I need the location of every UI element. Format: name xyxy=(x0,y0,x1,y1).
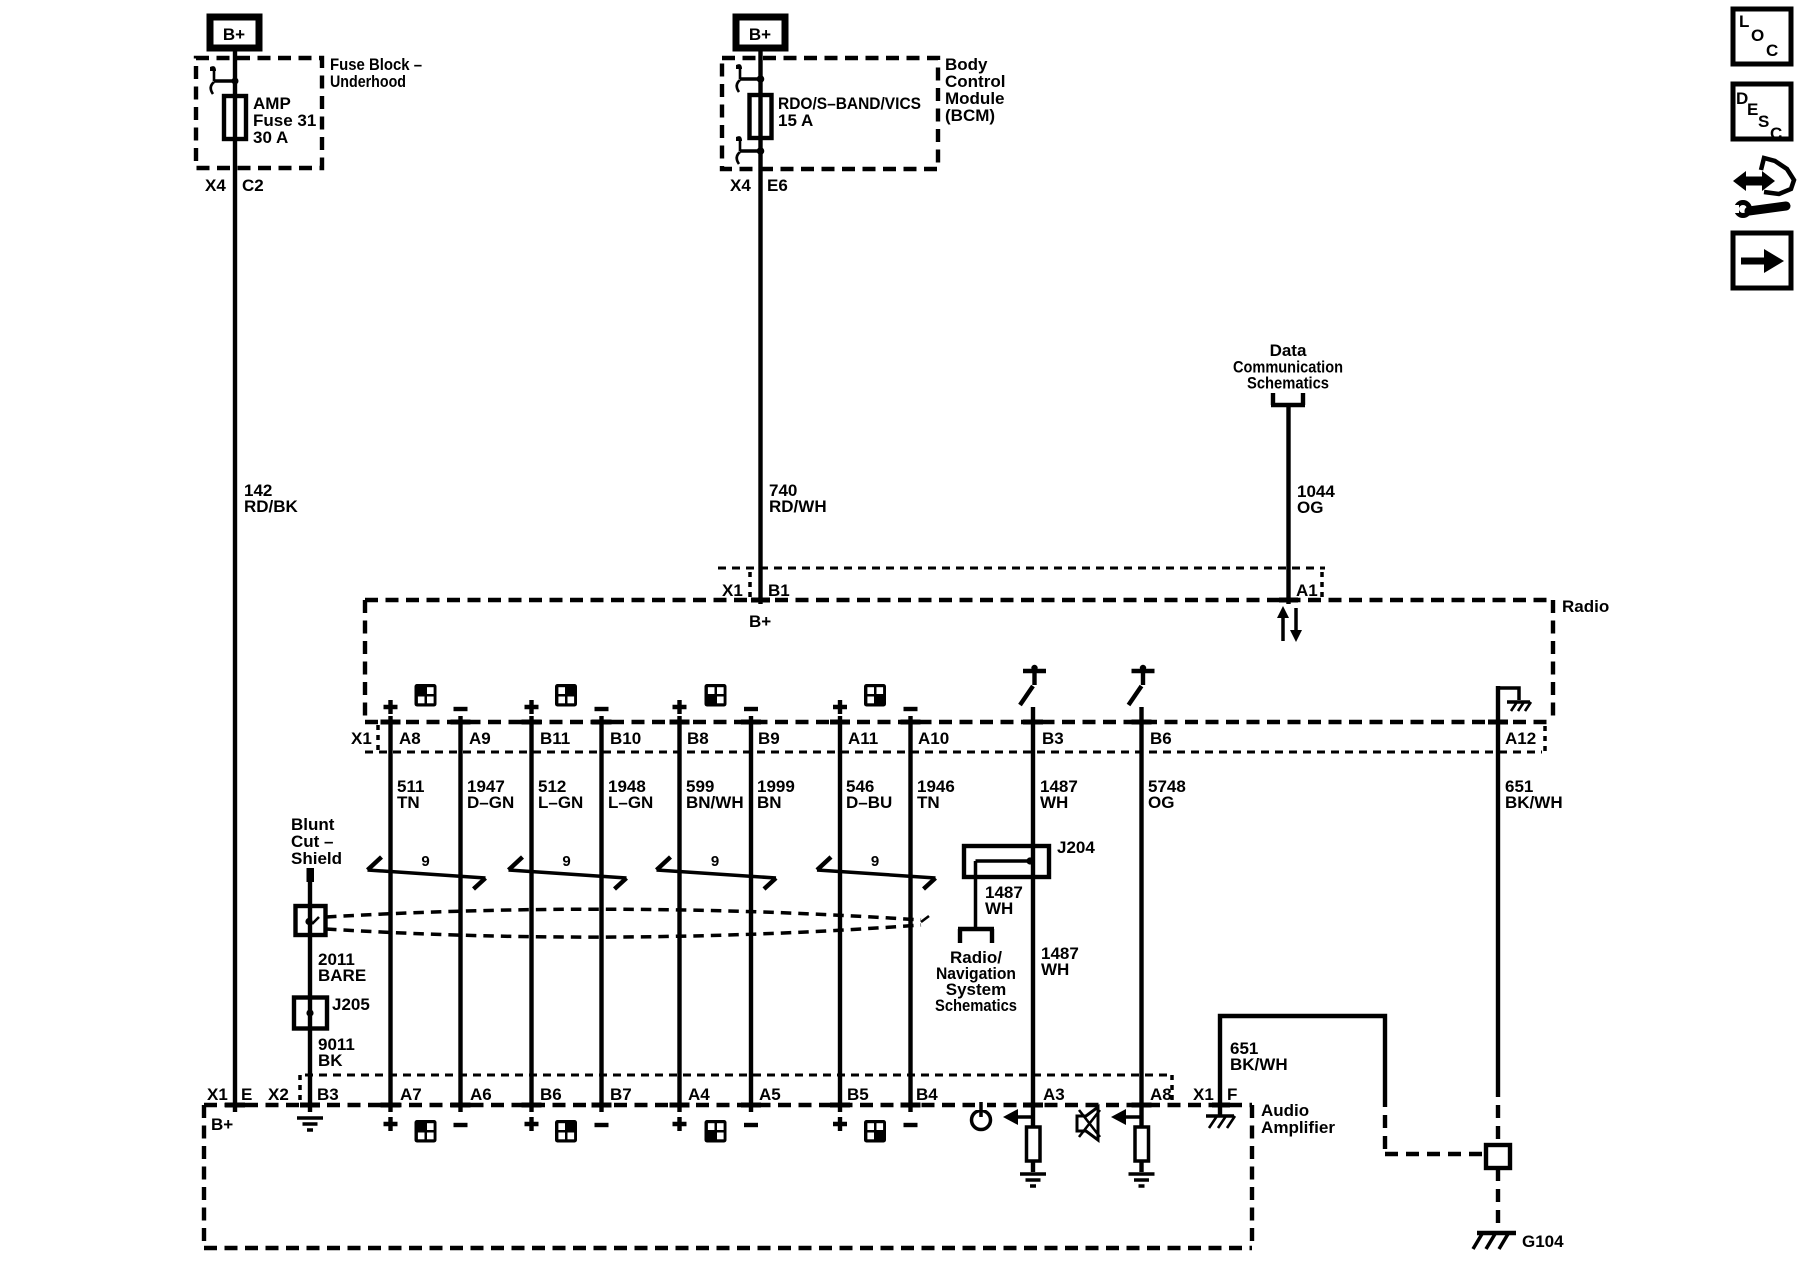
wire 142 RD/BK from B+ through fuse block down to amplifier pin E xyxy=(233,48,237,1112)
shield ellipse around speaker wires xyxy=(326,909,929,937)
twisted pair symbol (512/1948) with cable count 9 xyxy=(509,853,627,889)
speaker icon RR (bottom) xyxy=(864,1120,886,1143)
svg-text:15 A: 15 A xyxy=(778,111,813,130)
dashed wire segment to inline connector xyxy=(1385,1094,1488,1156)
chassis ground G104 xyxy=(1473,1232,1564,1251)
svg-text:J204: J204 xyxy=(1057,838,1095,857)
svg-text:BARE: BARE xyxy=(318,966,366,985)
ground bracket at radio pin A12 (internal) xyxy=(1498,688,1531,711)
amplifier dashed outline xyxy=(204,1105,1252,1248)
wire 2011 BARE / 9011 BK shield drain xyxy=(308,880,312,1112)
node B+ (BCM feed) xyxy=(736,17,785,48)
pin B3 xyxy=(1023,722,1064,748)
amp pin A4 xyxy=(670,1085,711,1105)
svg-text:A5: A5 xyxy=(759,1085,781,1104)
twisted pair symbol (546/1946) with cable count 9 xyxy=(817,853,936,889)
svg-text:A10: A10 xyxy=(918,729,949,748)
svg-text:L–GN: L–GN xyxy=(538,793,583,812)
radio dashed outline xyxy=(365,600,1553,723)
wire 1044 OG from data link down to radio pin A1 xyxy=(1286,403,1290,604)
svg-text:WH: WH xyxy=(985,899,1013,918)
pin B8 xyxy=(670,722,709,748)
svg-text:X2: X2 xyxy=(268,1085,289,1104)
body control module dashed outline (BCM) xyxy=(722,58,938,169)
amp pin A5 xyxy=(741,1085,781,1105)
connector clip at fuse input xyxy=(210,66,239,94)
minus B10 xyxy=(595,707,609,711)
svg-text:Schematics: Schematics xyxy=(1247,374,1329,393)
minus A9 xyxy=(454,707,468,711)
svg-text:B+: B+ xyxy=(749,25,771,44)
svg-text:S: S xyxy=(1758,112,1769,131)
svg-text:Amplifier: Amplifier xyxy=(1261,1118,1335,1137)
amp pin B3 (shield drain) xyxy=(268,1085,339,1105)
control arrow at A3 xyxy=(1003,1109,1033,1125)
svg-text:9: 9 xyxy=(562,853,570,870)
svg-text:B4: B4 xyxy=(916,1085,938,1104)
svg-text:B10: B10 xyxy=(610,729,641,748)
wire label 651 BK/WH (loop) xyxy=(1230,1039,1288,1074)
resistor at A8 xyxy=(1135,1127,1149,1161)
speaker icon RR (top) xyxy=(864,684,886,707)
svg-text:OG: OG xyxy=(1148,793,1174,812)
svg-text:E: E xyxy=(1747,100,1758,119)
connector clip at BCM fuse input xyxy=(736,64,764,92)
svg-text:B1: B1 xyxy=(768,581,790,600)
wire 1999 BN (B9 to A5) xyxy=(749,716,753,1112)
off-page reference: Radio/Navigation System Schematics xyxy=(935,929,1017,1015)
speaker polarity marks above radio pins xyxy=(384,700,918,714)
svg-text:Radio: Radio xyxy=(1562,597,1609,616)
plus A7 xyxy=(384,1117,398,1131)
svg-text:BK: BK xyxy=(318,1051,343,1070)
svg-text:E6: E6 xyxy=(767,176,788,195)
wire 651 BK/WH from A12 xyxy=(1496,686,1500,1084)
serial data arrows at A1 xyxy=(1277,606,1302,642)
splice J205 xyxy=(294,995,370,1029)
amp pin A6 xyxy=(451,1085,492,1105)
pin A11 xyxy=(830,722,878,748)
wire 1487 WH branch from J204 xyxy=(974,861,978,928)
RF feed symbol above radio pin B3 xyxy=(1020,665,1046,705)
wire 5748 OG (B6 to A8) xyxy=(1139,707,1143,1127)
plus A11 xyxy=(833,700,847,714)
amp pin F xyxy=(1193,1085,1237,1105)
svg-text:A8: A8 xyxy=(399,729,421,748)
svg-text:Schematics: Schematics xyxy=(935,996,1017,1015)
svg-text:F: F xyxy=(1227,1085,1237,1104)
svg-text:X1: X1 xyxy=(351,729,372,748)
label Blunt Cut - Shield xyxy=(291,815,342,868)
svg-text:TN: TN xyxy=(397,793,420,812)
plus B6 xyxy=(525,1117,539,1131)
label Body Control Module (BCM) xyxy=(945,55,1005,125)
wire 512 L-GN (B11 to B6) xyxy=(529,716,533,1112)
twisted pair symbol (511/1947) with cable count 9 xyxy=(368,853,486,889)
label Audio Amplifier xyxy=(1261,1101,1335,1137)
minus B7 xyxy=(595,1123,609,1127)
svg-text:B+: B+ xyxy=(211,1115,233,1134)
minus A6 xyxy=(454,1123,468,1127)
shield termination box xyxy=(296,906,326,935)
splice J204 xyxy=(964,838,1095,877)
twisted pair symbol (599/1999) with cable count 9 xyxy=(657,853,777,889)
amp pin A3 xyxy=(1023,1085,1065,1105)
pin A1 terminal cap xyxy=(1279,598,1298,603)
inline connector square xyxy=(1486,1145,1510,1168)
pin A10 xyxy=(901,722,950,748)
svg-text:RD/BK: RD/BK xyxy=(244,497,299,516)
wire label 740 RD/WH xyxy=(769,481,827,516)
pin B6 xyxy=(1132,722,1172,748)
svg-text:BN: BN xyxy=(757,793,782,812)
svg-text:B8: B8 xyxy=(687,729,709,748)
nav icon LOC xyxy=(1733,9,1791,64)
amp pin A8 xyxy=(1132,1085,1172,1105)
wire label 1487 WH (main) xyxy=(1041,944,1079,979)
svg-text:D–GN: D–GN xyxy=(467,793,514,812)
svg-text:X1: X1 xyxy=(207,1085,228,1104)
wire label 9011 BK xyxy=(318,1035,355,1070)
power on symbol at A3 xyxy=(972,1100,991,1130)
svg-text:E: E xyxy=(241,1085,252,1104)
svg-text:B11: B11 xyxy=(540,729,570,748)
minus B4 xyxy=(904,1123,918,1127)
ground symbol below A3 resistor xyxy=(1020,1174,1046,1186)
wire 599 BN/WH (B8 to A4) xyxy=(677,716,681,1112)
speaker icon RF (bottom) xyxy=(555,1120,577,1143)
pin A12 xyxy=(1488,722,1536,748)
label Fuse Block - Underhood xyxy=(330,55,422,91)
svg-text:B6: B6 xyxy=(1150,729,1172,748)
node B+ (fuse block feed) xyxy=(210,17,259,48)
wire label 1044 OG xyxy=(1297,482,1335,517)
wire 1487 WH (B3 to A3) xyxy=(1031,707,1035,1127)
RF feed symbol above radio pin B6 xyxy=(1129,665,1155,705)
fuse RDO/S-BAND/VICS 15 A xyxy=(750,94,922,138)
nav icon DESC xyxy=(1733,84,1791,143)
minus A5 xyxy=(744,1123,758,1127)
svg-text:O: O xyxy=(1751,26,1764,45)
amp pin B6 xyxy=(522,1085,562,1105)
svg-text:TN: TN xyxy=(917,793,940,812)
amp pin B7 xyxy=(592,1085,632,1105)
svg-text:30 A: 30 A xyxy=(253,128,288,147)
wire label 142 RD/BK xyxy=(244,481,299,516)
wire 1947 D-GN (A9 to A6) xyxy=(458,716,462,1112)
svg-text:BN/WH: BN/WH xyxy=(686,793,744,812)
speaker icon LF (top) xyxy=(415,684,437,707)
wire below resistor A3 xyxy=(1031,1161,1035,1172)
wire 511 TN (A8 to A7) xyxy=(388,716,392,1112)
svg-text:A6: A6 xyxy=(470,1085,492,1104)
amp pin B5 xyxy=(830,1085,869,1105)
svg-text:A3: A3 xyxy=(1043,1085,1065,1104)
svg-text:9: 9 xyxy=(711,853,719,870)
svg-text:B7: B7 xyxy=(610,1085,632,1104)
amp pin E (142 feed) xyxy=(207,1085,252,1105)
speaker icon RF (top) xyxy=(555,684,577,707)
pin labels X4 / C2 xyxy=(205,176,264,195)
svg-text:L–GN: L–GN xyxy=(608,793,653,812)
resistor at A3 xyxy=(1027,1127,1041,1161)
svg-text:A9: A9 xyxy=(469,729,491,748)
svg-text:OG: OG xyxy=(1297,498,1323,517)
pin B11 xyxy=(522,722,571,748)
svg-text:9: 9 xyxy=(421,853,429,870)
svg-text:C: C xyxy=(1770,124,1782,143)
connector clip at BCM fuse output xyxy=(736,136,764,164)
wire labels row below radio xyxy=(397,777,1563,812)
pin A8 xyxy=(381,722,421,748)
plus B11 xyxy=(525,700,539,714)
wire 740 RD/WH from B+ through BCM down to radio pin B1 xyxy=(758,48,762,604)
ground symbol below A8 resistor xyxy=(1129,1174,1155,1186)
svg-text:X4: X4 xyxy=(730,176,751,195)
radio top connector strip X1: pins B1, A1 xyxy=(718,568,1325,600)
wire 1946 TN (A10 to B4) xyxy=(908,716,912,1112)
svg-text:B3: B3 xyxy=(1042,729,1064,748)
plus A8 xyxy=(384,700,398,714)
plus B8 xyxy=(673,700,687,714)
wire 651 BK/WH loop from amp pin F xyxy=(1220,1016,1385,1105)
svg-text:9: 9 xyxy=(871,853,879,870)
svg-text:C: C xyxy=(1766,41,1778,60)
svg-text:J205: J205 xyxy=(332,995,370,1014)
wire 546 D-BU (A11 to B5) xyxy=(838,716,842,1112)
dashed wire segment to ground G104 xyxy=(1496,1168,1500,1230)
minus A10 xyxy=(904,707,918,711)
svg-text:A4: A4 xyxy=(688,1085,710,1104)
ground symbol inside amp at B3 xyxy=(297,1118,323,1130)
amp pin B4 xyxy=(901,1085,939,1105)
svg-text:L: L xyxy=(1739,12,1749,31)
speaker icon LR (bottom) xyxy=(705,1120,727,1143)
pin B9 xyxy=(741,722,780,748)
minus B9 xyxy=(744,707,758,711)
plus B5 xyxy=(833,1117,847,1131)
svg-text:Underhood: Underhood xyxy=(330,72,406,91)
svg-text:RD/WH: RD/WH xyxy=(769,497,827,516)
svg-text:B+: B+ xyxy=(749,612,771,631)
svg-text:A1: A1 xyxy=(1296,581,1318,600)
wire label 2011 BARE xyxy=(318,950,366,985)
svg-text:D–BU: D–BU xyxy=(846,793,892,812)
svg-text:C2: C2 xyxy=(242,176,264,195)
svg-text:A12: A12 xyxy=(1505,729,1536,748)
svg-text:B+: B+ xyxy=(223,25,245,44)
svg-text:(BCM): (BCM) xyxy=(945,106,995,125)
svg-text:BK/WH: BK/WH xyxy=(1230,1055,1288,1074)
svg-text:X1: X1 xyxy=(1193,1085,1214,1104)
pin A9 xyxy=(451,722,491,748)
svg-text:WH: WH xyxy=(1040,793,1068,812)
plus A4 xyxy=(673,1117,687,1131)
fuse block dashed outline (Fuse Block - Underhood) xyxy=(196,58,322,168)
mute speaker symbol at A8 xyxy=(1077,1107,1100,1140)
pin B10 xyxy=(592,722,642,748)
svg-text:X4: X4 xyxy=(205,176,226,195)
svg-text:B5: B5 xyxy=(847,1085,869,1104)
svg-text:X1: X1 xyxy=(722,581,743,600)
amp pin A7 xyxy=(381,1085,422,1105)
svg-text:G104: G104 xyxy=(1522,1232,1564,1251)
svg-text:B3: B3 xyxy=(317,1085,339,1104)
wire label 1487 WH (branch) xyxy=(985,883,1023,918)
svg-text:BK/WH: BK/WH xyxy=(1505,793,1563,812)
off-page reference: Data Communication Schematics xyxy=(1233,341,1343,405)
svg-text:WH: WH xyxy=(1041,960,1069,979)
svg-text:A7: A7 xyxy=(400,1085,422,1104)
wire 1948 L-GN (B10 to B7) xyxy=(599,716,603,1112)
nav icon next-page arrow xyxy=(1733,233,1791,288)
speaker polarity marks below amp pins xyxy=(384,1117,918,1131)
speaker icon LF (bottom) xyxy=(415,1120,437,1143)
svg-text:A11: A11 xyxy=(848,729,878,748)
svg-text:A8: A8 xyxy=(1150,1085,1172,1104)
fuse AMP Fuse 31 30 A xyxy=(224,94,316,147)
nav icon tools/jump xyxy=(1732,158,1794,216)
amplifier connector strip xyxy=(300,1075,1172,1104)
svg-text:Shield: Shield xyxy=(291,849,342,868)
svg-text:B9: B9 xyxy=(758,729,780,748)
pin B1 terminal cap xyxy=(751,598,770,603)
svg-text:B6: B6 xyxy=(540,1085,562,1104)
wire below resistor A8 xyxy=(1139,1161,1143,1172)
control arrow at A8 xyxy=(1111,1109,1142,1125)
pin labels X4 / E6 xyxy=(730,176,788,195)
chassis ground symbol at amp pin F xyxy=(1206,1105,1235,1128)
radio bottom connector strip X1 labels xyxy=(351,725,1545,752)
speaker icon LR (top) xyxy=(705,684,727,707)
blunt cut tip xyxy=(307,868,315,882)
